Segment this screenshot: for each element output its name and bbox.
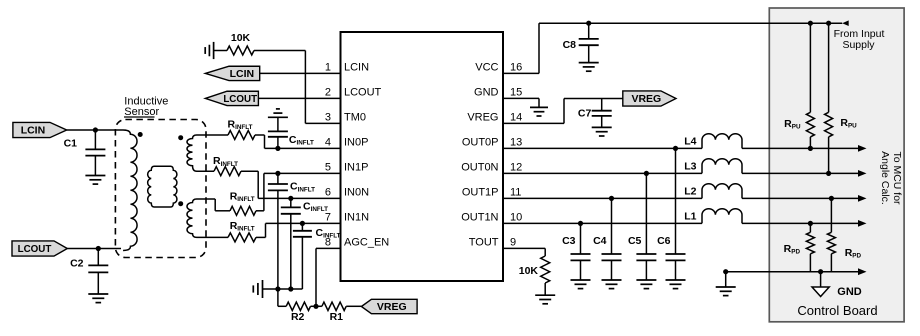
svg-text:15: 15 [510, 87, 522, 99]
svg-text:11: 11 [510, 187, 521, 199]
svg-text:16: 16 [510, 62, 522, 74]
svg-text:CINFLT: CINFLT [289, 134, 314, 147]
svg-text:L2: L2 [684, 186, 696, 198]
svg-text:LCOUT: LCOUT [344, 87, 382, 99]
svg-text:C7: C7 [578, 107, 592, 119]
svg-text:GND: GND [837, 286, 862, 298]
svg-text:GND: GND [474, 87, 499, 99]
svg-text:6: 6 [325, 187, 331, 199]
svg-text:12: 12 [510, 162, 522, 174]
svg-text:C5: C5 [628, 235, 642, 247]
svg-text:RINFLT: RINFLT [213, 155, 238, 168]
svg-text:IN1N: IN1N [344, 212, 369, 224]
svg-text:From Input: From Input [834, 28, 885, 40]
svg-text:LCIN: LCIN [230, 68, 255, 80]
svg-text:1: 1 [325, 62, 331, 74]
svg-text:C6: C6 [657, 235, 671, 247]
svg-text:IN0P: IN0P [344, 137, 368, 149]
svg-text:VREG: VREG [467, 112, 498, 124]
svg-text:CINFLT: CINFLT [290, 181, 315, 194]
svg-text:RINFLT: RINFLT [228, 119, 253, 132]
svg-text:OUT1P: OUT1P [462, 187, 499, 199]
svg-text:L3: L3 [684, 161, 696, 173]
svg-text:Supply: Supply [842, 39, 875, 51]
svg-text:C8: C8 [563, 39, 577, 51]
svg-text:C3: C3 [562, 235, 576, 247]
svg-text:10K: 10K [231, 32, 251, 44]
svg-text:13: 13 [510, 137, 522, 149]
svg-text:TM0: TM0 [344, 112, 366, 124]
svg-text:R1: R1 [330, 311, 344, 323]
svg-text:RINFLT: RINFLT [230, 220, 255, 233]
svg-text:LCOUT: LCOUT [18, 244, 52, 255]
svg-text:3: 3 [325, 112, 331, 124]
svg-text:To MCU for: To MCU for [891, 151, 903, 205]
svg-text:7: 7 [325, 212, 331, 224]
svg-text:5: 5 [325, 162, 331, 174]
svg-text:L1: L1 [684, 211, 696, 223]
svg-text:10K: 10K [519, 265, 539, 277]
svg-text:LCOUT: LCOUT [223, 94, 257, 105]
svg-text:C2: C2 [70, 257, 84, 269]
svg-text:LCIN: LCIN [21, 125, 46, 137]
svg-text:CINFLT: CINFLT [316, 227, 341, 240]
svg-text:OUT0P: OUT0P [462, 137, 499, 149]
svg-text:L4: L4 [684, 136, 696, 148]
svg-text:14: 14 [510, 112, 522, 124]
svg-text:AGC_EN: AGC_EN [344, 237, 389, 249]
svg-text:R2: R2 [291, 311, 305, 323]
svg-text:9: 9 [510, 237, 516, 249]
svg-text:TOUT: TOUT [469, 237, 499, 249]
svg-text:10: 10 [510, 212, 522, 224]
svg-text:C1: C1 [64, 138, 78, 150]
svg-text:VREG: VREG [631, 93, 661, 105]
svg-text:IN0N: IN0N [344, 187, 369, 199]
svg-text:VCC: VCC [475, 62, 498, 74]
svg-text:2: 2 [325, 87, 331, 99]
svg-text:CINFLT: CINFLT [303, 201, 328, 214]
svg-text:OUT0N: OUT0N [461, 162, 498, 174]
svg-text:Control Board: Control Board [797, 303, 877, 318]
svg-text:RINFLT: RINFLT [230, 191, 255, 204]
svg-text:OUT1N: OUT1N [461, 212, 498, 224]
svg-text:Sensor: Sensor [124, 106, 159, 118]
svg-text:LCIN: LCIN [344, 62, 369, 74]
svg-text:Angle Calc.: Angle Calc. [879, 151, 891, 205]
svg-text:4: 4 [325, 137, 331, 149]
svg-text:VREG: VREG [377, 301, 407, 313]
svg-text:IN1P: IN1P [344, 162, 368, 174]
svg-text:C4: C4 [593, 235, 607, 247]
